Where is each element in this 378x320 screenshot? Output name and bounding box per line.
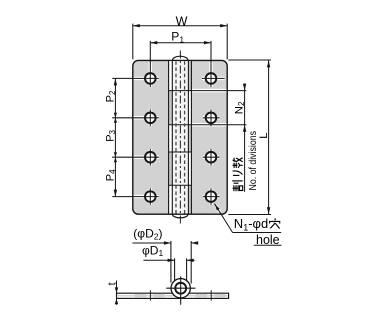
L dimension extension lines [228, 60, 271, 215]
数 [233, 158, 243, 168]
side view: faint mid parting line [118, 295, 229, 297]
knuckle joint line 3 [169, 151, 192, 153]
side view: countersink marks, left hole [135, 290, 165, 300]
phi D1 extension lines [175, 258, 187, 282]
knuckle box left edge [171, 60, 173, 214]
knuckle slit gaps: right side (shaded on 1,3,5; open white on 2,4) [189, 61, 191, 213]
pin center line (dash-dot) [179, 51, 181, 224]
dimension W: extension lines [133, 24, 227, 60]
(phi D2) extension lines [171, 241, 191, 284]
svg-text:hole: hole [256, 233, 280, 247]
dimension P1: line and arrows [150, 42, 211, 44]
side view: pin circle [175, 283, 186, 294]
knuckle column (barrel strip interior) [169, 61, 192, 213]
side view: hinge leaf bar [117, 293, 229, 298]
phi D1 dimension line with outside arrows [143, 259, 194, 261]
L dimension line and arrows [268, 60, 270, 214]
knuckle slit gaps: left side (white = open on segments 1,3,5; shaded = attached on 2,4) [169, 61, 172, 213]
kanji ana (hole) [270, 218, 280, 228]
knuckle joint line 1 [169, 90, 192, 92]
white casings for crosshair and joint lines over the gray body [134, 62, 227, 212]
dimension W: line and arrows [133, 25, 227, 27]
arrows on left chain [114, 78, 117, 85]
hole crosshair verticals (top row doubles as P1 extension) [150, 41, 211, 205]
N1-phi-d hole leader with arrowhead [215, 204, 220, 211]
knuckle top dome [172, 56, 188, 60]
hinge leaf body (plan view) [133, 60, 227, 214]
underline under hole [254, 244, 282, 246]
N2 dimension line (outside arrows) [244, 84, 246, 192]
knuckle bottom dome [172, 214, 188, 218]
svg-text:t: t [106, 282, 118, 285]
svg-text:No. of divisions: No. of divisions [248, 131, 259, 191]
left chain dimension line P2/P3/P4 [114, 78, 116, 196]
side view: countersink marks, right hole [195, 290, 225, 300]
label wari-su (kanji, rotated): 割 [232, 158, 243, 192]
り [233, 171, 243, 175]
t dimension line with outside arrows [116, 281, 118, 305]
right leaf edge line at barrel [190, 60, 192, 214]
hinge pin hidden lines (dashed) [176, 61, 185, 213]
svg-text:N1-φd: N1-φd [234, 216, 268, 232]
knuckle joint lines 1,2 extended right as N2 extensions [191, 91, 246, 125]
knuckle joint line 4 [169, 184, 192, 186]
side view: barrel outer circle [171, 279, 190, 298]
(phi D2) dimension line with outside arrows [132, 242, 197, 244]
screw holes (8x) [145, 73, 216, 202]
svg-text:(φD2): (φD2) [133, 227, 162, 242]
hole crosshair horizontals, left column (with P2-P4 extensions) [112, 78, 159, 196]
side view: crosshair [166, 276, 195, 304]
left leaf edge line at barrel [168, 60, 170, 214]
svg-text:L: L [258, 133, 270, 139]
knuckle box right edge [187, 60, 189, 214]
knuckle joint line 2 [169, 124, 192, 126]
hole crosshair horizontals, right column [202, 78, 225, 196]
svg-text:W: W [176, 14, 188, 28]
